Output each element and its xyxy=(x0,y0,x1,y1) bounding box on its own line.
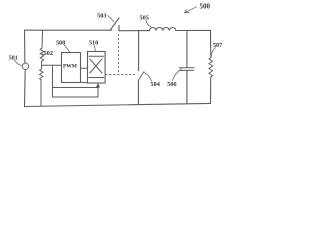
svg-text:501: 501 xyxy=(9,55,18,61)
svg-text:503: 503 xyxy=(97,12,106,19)
svg-text:507: 507 xyxy=(213,42,222,49)
svg-text:504: 504 xyxy=(151,81,160,88)
svg-text:508: 508 xyxy=(56,40,65,47)
svg-text:510: 510 xyxy=(89,39,98,46)
svg-text:505: 505 xyxy=(140,14,149,21)
svg-text:500: 500 xyxy=(200,3,211,11)
svg-text:PWM: PWM xyxy=(63,63,78,69)
svg-text:502: 502 xyxy=(44,50,53,57)
svg-text:506: 506 xyxy=(167,81,176,88)
